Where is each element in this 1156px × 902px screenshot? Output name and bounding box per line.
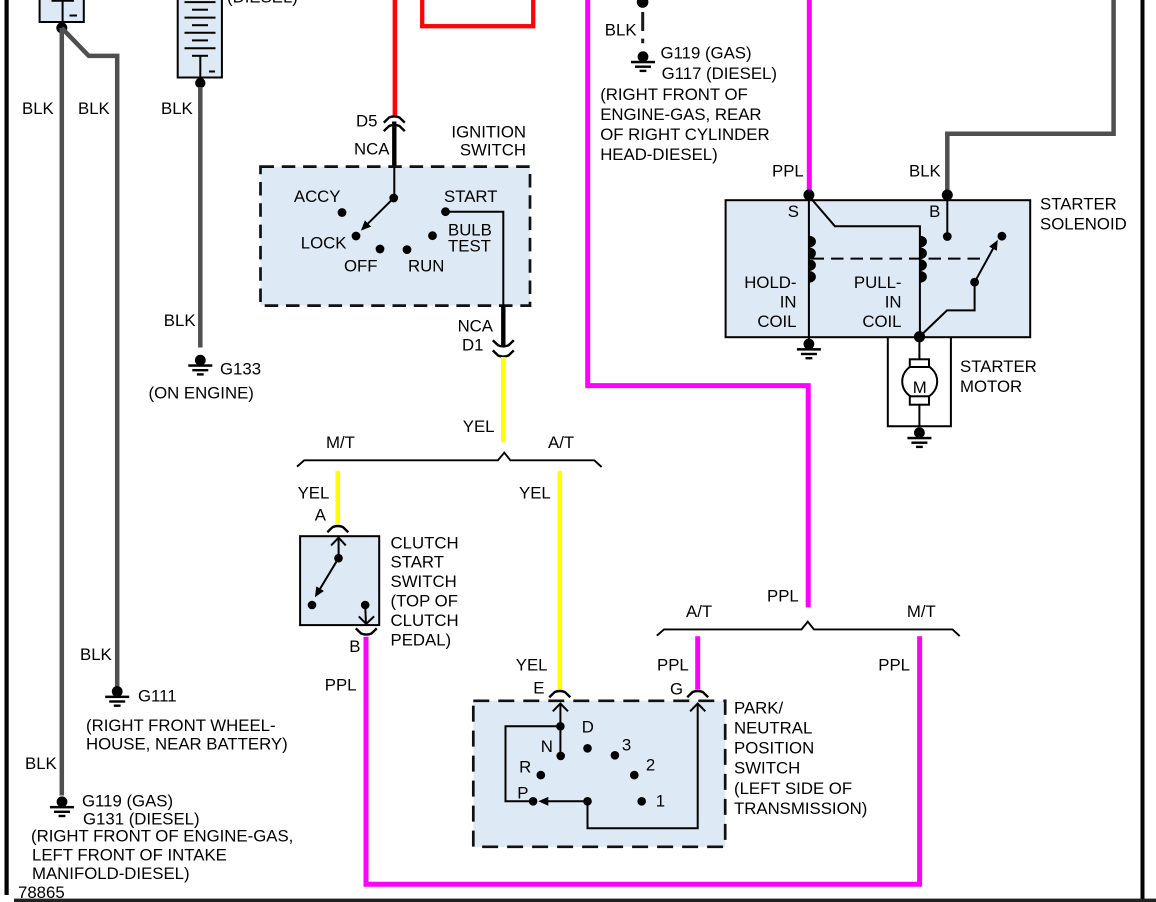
clutch switch contact A arrow (331, 538, 346, 558)
solenoid switch arm (920, 240, 998, 337)
contact N (556, 752, 565, 761)
motor brush (bottom) (910, 396, 929, 404)
connector G (687, 691, 708, 697)
svg-text:NCA: NCA (354, 139, 390, 158)
svg-text:(DIESEL): (DIESEL) (227, 0, 298, 7)
svg-text:(ON ENGINE): (ON ENGINE) (149, 383, 254, 402)
wire BLK (to solenoid B) (947, 0, 1113, 191)
svg-text:3: 3 (622, 735, 631, 754)
svg-text:(RIGHT FRONT WHEEL-: (RIGHT FRONT WHEEL- (86, 716, 276, 735)
svg-text:(TOP OF: (TOP OF (391, 592, 458, 611)
svg-text:E: E (533, 679, 544, 698)
node: B stub contact (943, 232, 952, 241)
svg-text:BLK: BLK (80, 645, 112, 664)
starter motor frame (888, 337, 951, 426)
pull-in coil winding (920, 236, 927, 283)
border left (5, 0, 9, 895)
svg-text:BLK: BLK (25, 754, 57, 773)
svg-text:BLK: BLK (78, 99, 110, 118)
svg-text:YEL: YEL (463, 417, 495, 436)
svg-text:COIL: COIL (757, 312, 796, 331)
svg-text:M: M (913, 378, 927, 397)
battery B2 (diesel) (178, 0, 222, 78)
svg-text:N: N (541, 737, 553, 756)
contact 1 (637, 797, 646, 806)
svg-text:START: START (444, 187, 497, 206)
node: solenoid common (bottom) (914, 331, 925, 342)
node: top BLK junction (637, 0, 649, 8)
wire (START contact to box bottom) (446, 212, 504, 306)
svg-text:PPL: PPL (772, 161, 804, 180)
wire BLK dashed (to G119/G117) (641, 12, 644, 46)
svg-text:BLK: BLK (909, 161, 941, 180)
contact OFF (376, 245, 385, 254)
connector D1 (493, 340, 514, 356)
border bottom (14, 899, 1156, 902)
node: terminal B (942, 190, 953, 201)
svg-text:RUN: RUN (408, 257, 444, 276)
plunger dashed link (812, 258, 984, 260)
node: moving contact (park/neutral) (583, 797, 592, 806)
svg-text:SWITCH: SWITCH (391, 572, 457, 591)
contact 2 (630, 771, 639, 780)
wire RED (to ignition switch) (393, 0, 398, 116)
svg-text:MOTOR: MOTOR (960, 377, 1022, 396)
motor M1 (armature circle) (902, 364, 937, 399)
node: battery B2 negative junction (195, 78, 205, 88)
wire (inside ignition switch, feed) (393, 167, 395, 198)
svg-text:G111: G111 (138, 687, 177, 706)
svg-text:PPL: PPL (325, 676, 357, 695)
wire (S to pull-in coil) (809, 196, 920, 337)
battery B1 (gas) (40, 0, 84, 22)
svg-text:A/T: A/T (686, 602, 712, 621)
svg-text:POSITION: POSITION (734, 739, 814, 758)
svg-text:STARTER: STARTER (960, 357, 1037, 376)
contact ACCY (338, 208, 347, 217)
svg-text:(LEFT SIDE OF: (LEFT SIDE OF (734, 779, 852, 798)
svg-text:PARK/: PARK/ (734, 699, 783, 718)
svg-text:G133: G133 (220, 359, 261, 378)
connector E (549, 691, 570, 697)
svg-text:START: START (391, 553, 444, 572)
svg-text:(RIGHT FRONT OF: (RIGHT FRONT OF (600, 85, 748, 104)
svg-text:IN: IN (885, 293, 902, 312)
svg-text:M/T: M/T (907, 602, 936, 621)
svg-text:D: D (582, 717, 594, 736)
wire PPL (to solenoid S) (807, 0, 812, 191)
wire PPL (ignition trunk to brace) (588, 0, 809, 607)
svg-text:NCA: NCA (458, 316, 494, 335)
svg-text:TRANSMISSION): TRANSMISSION) (734, 799, 867, 818)
fusible link box (red, cut off at top) (422, 0, 533, 26)
svg-text:PPL: PPL (657, 655, 689, 674)
svg-text:YEL: YEL (298, 483, 330, 502)
node: terminal S (803, 190, 814, 201)
ignition rotor arm (arrow to LOCK) (361, 198, 394, 231)
node: battery B1 negative junction (56, 22, 67, 33)
node: E junction (556, 722, 565, 731)
wire (B terminal stub) (946, 197, 948, 237)
svg-text:COIL: COIL (862, 312, 901, 331)
contact (clutch, terminal B) (361, 601, 370, 610)
svg-text:S: S (788, 202, 799, 221)
svg-text:BLK: BLK (164, 311, 196, 330)
svg-text:YEL: YEL (516, 655, 548, 674)
svg-text:G119 (GAS): G119 (GAS) (82, 791, 173, 810)
svg-text:ACCY: ACCY (294, 187, 341, 206)
svg-text:M/T: M/T (326, 433, 355, 452)
clutch start switch box (300, 536, 379, 625)
wire (E junction to P contact) (506, 726, 561, 801)
wire YEL (D1 down) (501, 357, 506, 442)
wire (moving contact to G terminal) (588, 705, 698, 828)
wire NCA (ignition switch to D1) (501, 306, 505, 346)
connector A (327, 526, 348, 532)
wire YEL (M/T branch to clutch switch) (335, 471, 340, 524)
svg-text:1: 1 (656, 792, 665, 811)
wire BLK (battery B1 to G119/G131 ground) (60, 28, 65, 796)
ground G119/G117 (631, 51, 655, 72)
svg-text:IGNITION: IGNITION (451, 123, 526, 142)
park/neutral moving arm (arrow to P) (538, 797, 587, 806)
svg-text:D1: D1 (462, 335, 483, 354)
terminal G arrow (park/neutral) (690, 704, 705, 712)
ground G111 (105, 686, 129, 707)
svg-text:HEAD-DIESEL): HEAD-DIESEL) (600, 145, 718, 164)
wire PPL (clutch switch B to park/neutral M/T branch) (366, 636, 920, 884)
contact D (583, 744, 592, 753)
park/neutral position switch box (473, 701, 725, 847)
svg-text:SWITCH: SWITCH (734, 759, 800, 778)
contact RUN (403, 245, 412, 254)
svg-text:PPL: PPL (878, 655, 910, 674)
contact LOCK (352, 232, 361, 241)
border right (1141, 0, 1145, 902)
ground (hold-in coil) (797, 337, 821, 359)
connector D5 (384, 116, 405, 131)
svg-text:R: R (519, 758, 531, 777)
svg-text:2: 2 (646, 755, 655, 774)
contact 3 (611, 751, 620, 760)
svg-text:CLUTCH: CLUTCH (391, 611, 459, 630)
svg-text:SOLENOID: SOLENOID (1040, 215, 1127, 234)
wire (E junction to N contact) (559, 726, 561, 752)
svg-text:G119 (GAS): G119 (GAS) (661, 44, 752, 63)
svg-text:OF RIGHT CYLINDER: OF RIGHT CYLINDER (600, 125, 769, 144)
svg-text:A/T: A/T (548, 433, 574, 452)
svg-text:OFF: OFF (344, 257, 378, 276)
node: ignition rotor junction (389, 194, 398, 203)
svg-text:TEST: TEST (448, 236, 491, 255)
svg-text:A: A (315, 505, 327, 524)
brace split A/T | M/T (PPL) (657, 622, 960, 636)
contact R (537, 771, 546, 780)
svg-text:CLUTCH: CLUTCH (391, 533, 459, 552)
label PULL-IN COIL (854, 273, 902, 331)
svg-text:HOLD-: HOLD- (744, 273, 796, 292)
node: clutch moving contact pivot (334, 554, 343, 563)
node: motor feed junction (914, 331, 925, 342)
wire PPL (A/T branch to G) (695, 636, 700, 689)
svg-text:D5: D5 (356, 111, 377, 130)
svg-text:PEDAL): PEDAL) (391, 630, 452, 649)
svg-text:BLK: BLK (161, 99, 193, 118)
wire (hold-in coil) (808, 197, 810, 337)
svg-text:SWITCH: SWITCH (460, 141, 526, 160)
wire BLK (battery B1 branch to G111 ground) (62, 28, 117, 687)
svg-text:NEUTRAL: NEUTRAL (734, 719, 812, 738)
label PARK/NEUTRAL POSITION SWITCH (734, 699, 867, 818)
svg-text:MANIFOLD-DIESEL): MANIFOLD-DIESEL) (32, 864, 190, 883)
svg-text:HOUSE, NEAR BATTERY): HOUSE, NEAR BATTERY) (86, 734, 288, 753)
svg-text:PULL-: PULL- (854, 273, 902, 292)
hold-in coil winding (809, 236, 816, 283)
contact P (529, 797, 538, 806)
svg-text:YEL: YEL (519, 483, 551, 502)
svg-text:ENGINE-GAS, REAR: ENGINE-GAS, REAR (600, 105, 761, 124)
wire (junction to motor) (918, 340, 920, 359)
svg-text:P: P (517, 783, 528, 802)
wire (motor to frame bottom) (918, 405, 920, 427)
svg-text:B: B (349, 637, 360, 656)
ground G119/G131 (50, 796, 74, 817)
ground (starter motor) (907, 427, 931, 448)
starter solenoid box (726, 200, 1031, 337)
clutch switch arm (arrow) (315, 558, 339, 597)
label CLUTCH START SWITCH (391, 533, 459, 649)
contact (clutch, lower left) (308, 601, 317, 610)
svg-text:LEFT FRONT OF INTAKE: LEFT FRONT OF INTAKE (32, 845, 227, 864)
wire NCA (D5 to ignition switch) (392, 122, 396, 169)
svg-text:STARTER: STARTER (1040, 194, 1117, 213)
wire BLK (battery B2 to G133) (198, 87, 203, 348)
svg-text:(RIGHT FRONT OF ENGINE-GAS,: (RIGHT FRONT OF ENGINE-GAS, (31, 826, 293, 845)
connector B (356, 628, 377, 634)
contact START (441, 207, 450, 216)
contact BULB TEST (428, 231, 437, 240)
motor brush (top) (910, 359, 929, 367)
svg-text:LOCK: LOCK (301, 234, 347, 253)
ground G133 (188, 355, 212, 376)
svg-text:G117 (DIESEL): G117 (DIESEL) (662, 64, 777, 83)
clutch contact B arrow (359, 605, 374, 624)
svg-text:G: G (670, 680, 683, 699)
ignition switch box (261, 167, 531, 306)
node: solenoid stationary contact (998, 232, 1007, 241)
label HOLD-IN COIL (744, 273, 796, 331)
wire YEL (A/T branch to park/neutral switch) (557, 471, 562, 690)
svg-text:PPL: PPL (767, 587, 799, 606)
svg-text:B: B (929, 202, 940, 221)
terminal E arrow (park/neutral) (553, 704, 568, 727)
svg-text:BLK: BLK (22, 99, 54, 118)
svg-text:IN: IN (780, 293, 797, 312)
svg-text:BLK: BLK (605, 20, 637, 39)
brace split M/T | A/T (297, 453, 602, 467)
